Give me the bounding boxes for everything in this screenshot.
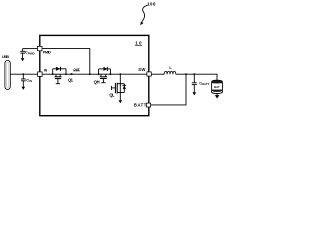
main internal wire IN to SW [42,73,147,75]
wire USB to IN pad [10,73,37,75]
svg-text:QH: QH [94,80,100,85]
ground arrow below QL [119,100,123,103]
node dot Q1 right [65,73,67,75]
node dot QL tap [119,73,121,75]
svg-text:IN: IN [29,79,32,83]
node dot C_BATT tap [193,73,195,75]
IN pad [38,72,43,77]
svg-text:BATT: BATT [202,82,209,86]
lead-line squiggle to 100 [142,5,148,21]
svg-text:10: 10 [135,41,142,46]
wire inductor to battery [176,74,217,80]
transistor QL [111,74,126,100]
SW pad [147,72,151,76]
wire BATT feedback [151,74,187,105]
ground arrow below C_PMID [21,58,25,61]
capacitor C_IN [21,74,26,87]
node dot QL branch bottom [120,92,121,93]
svg-text:Q1: Q1 [68,77,74,82]
battery lead [216,93,218,95]
current arrow out [69,73,72,75]
transistor Q1 [53,67,66,84]
node dot feedback [185,73,187,75]
inductor L [164,71,176,74]
svg-text:100: 100 [147,2,156,7]
svg-text:IN: IN [44,69,48,73]
wire SW pad to inductor [151,73,164,75]
node dot Q1 left [52,73,54,75]
svg-text:PMID: PMID [43,51,51,55]
svg-text:PMID: PMID [28,51,35,55]
svg-text:L: L [169,65,172,70]
USB connector [5,60,10,89]
PMID internal rail [42,49,90,75]
svg-text:USB: USB [2,55,9,59]
transistor QH [99,67,111,83]
node dot QH left [98,73,100,75]
wire PMID pad to C_PMID [23,48,38,50]
BATT pad [146,103,150,107]
node dot QH right [110,73,112,75]
ground arrow below C_BATT [193,92,197,95]
capacitor C_BATT [192,74,197,92]
svg-text:BAT: BAT [214,85,220,89]
PMID pad [38,46,43,50]
node dot QL branch top [120,83,121,84]
svg-text:QL: QL [109,92,115,97]
node dot PMID drop [89,73,91,75]
svg-text:BATT: BATT [134,102,147,107]
node dot C_IN tap [22,73,24,75]
svg-text:SW: SW [138,67,146,72]
battery BAT [212,80,223,93]
ground arrow below C_IN [22,87,26,90]
capacitor C_PMID [20,49,25,59]
ground arrow below battery [215,95,220,98]
IC block U10 outline [40,35,149,115]
